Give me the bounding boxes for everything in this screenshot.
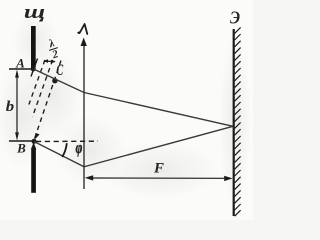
svg-text:B: B <box>16 141 26 156</box>
svg-text:Э: Э <box>230 8 240 28</box>
svg-text:φ: φ <box>76 139 83 158</box>
svg-text:A: A <box>15 56 25 71</box>
svg-text:F: F <box>153 161 164 177</box>
svg-text:b: b <box>6 99 14 115</box>
svg-text:C: C <box>56 61 63 79</box>
svg-text:щ: щ <box>24 1 45 22</box>
